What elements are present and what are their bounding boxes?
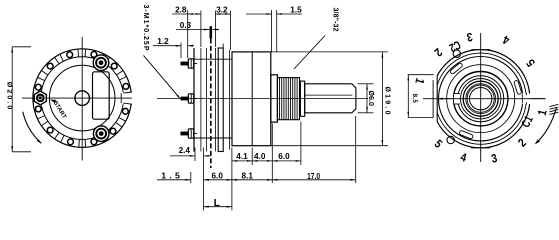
left view: ring gap at 3 o'clock	[122, 92, 134, 104]
svg-text:4.1: 4.1	[236, 151, 248, 161]
right view: index slots	[514, 80, 522, 95]
svg-text:1.5: 1.5	[161, 171, 180, 181]
middle view: step ring	[300, 81, 304, 116]
svg-text:4.0: 4.0	[254, 151, 266, 161]
middle view: dimension 0.3	[176, 29, 209, 31]
middle view: main body	[232, 52, 271, 146]
left view: START label with arrow	[50, 100, 56, 103]
middle view: rotor plate stub	[210, 26, 213, 38]
middle view: bushing base ring	[271, 75, 278, 122]
middle view: shaft	[305, 84, 356, 113]
middle view: leader line to threads	[294, 36, 325, 70]
middle view: wafer tie strips	[194, 58, 232, 60]
svg-text:1.5: 1.5	[290, 4, 302, 14]
middle view: wafer plates	[193, 48, 195, 152]
middle view: dimension diameter 6.0 shaft	[358, 83, 374, 85]
middle view: dimension 2.4	[170, 155, 195, 157]
svg-text:Ø19.0: Ø19.0	[384, 87, 391, 115]
right view: top flat	[471, 47, 491, 49]
middle view: dimension diameter 19.0 body	[232, 51, 388, 53]
middle view: 3-M1x0.25P label	[142, 5, 149, 51]
middle view: wafer center dashed line	[210, 38, 212, 168]
right view: mounting ear bottom-left	[447, 136, 454, 143]
left view: actuator rectangle	[93, 72, 110, 119]
svg-text:8.1: 8.1	[242, 171, 254, 181]
right view: rim gap at 3 o'clock	[522, 94, 531, 105]
left view: hexagon nut at left	[34, 91, 46, 105]
svg-text:L: L	[214, 198, 220, 209]
left view: diameter dimension 20.0	[11, 47, 13, 152]
right view: mounting ear top-left	[453, 50, 460, 57]
middle view: 3/8-32 thread label	[332, 8, 339, 32]
middle view: terminals	[181, 62, 188, 65]
middle view: dimension 3.2	[215, 13, 230, 15]
svg-text:3/8"-32: 3/8"-32	[332, 8, 339, 32]
left view: center lines	[81, 37, 83, 161]
middle view: threaded bushing	[277, 78, 299, 120]
middle view: dimension 2.8	[172, 13, 201, 15]
svg-text:8.5: 8.5	[411, 94, 418, 104]
right view: center lines	[480, 33, 482, 162]
right view: rotation direction arrow	[536, 108, 557, 144]
svg-text:2.4: 2.4	[179, 145, 191, 155]
middle view: leader line to terminal	[144, 55, 180, 98]
right view: keyway notch at left	[453, 94, 460, 104]
left view: rivet bottom-right	[93, 126, 109, 142]
svg-text:17.0: 17.0	[307, 171, 320, 181]
right view: centerlines redrawn over flats	[521, 98, 546, 100]
right view: arrow tail feathers	[550, 104, 559, 106]
svg-text:3-M1*0.25P: 3-M1*0.25P	[142, 5, 149, 51]
right view: body outer circles	[432, 49, 530, 147]
svg-text:6.0: 6.0	[212, 171, 224, 181]
right view: arrowhead on centerline	[438, 98, 443, 100]
middle view: dimension 1.2	[153, 45, 181, 47]
right view: bushing and shaft circles	[454, 72, 508, 126]
middle view: dimension 1.5 top	[246, 13, 272, 15]
right view: dimension 8.5	[408, 74, 434, 76]
svg-text:Ø20.0: Ø20.0	[5, 82, 12, 110]
right view: bottom flat	[471, 148, 491, 150]
middle view: horizontal centerline	[157, 98, 368, 100]
svg-text:0.3: 0.3	[180, 20, 192, 30]
left view: lug divider lines and terminal circles	[124, 94, 132, 97]
svg-text:2.8: 2.8	[175, 4, 187, 14]
svg-text:Ø6.0: Ø6.0	[367, 90, 374, 106]
left view: body circle	[49, 65, 115, 131]
right view: terminal position labels	[412, 76, 427, 86]
svg-text:3.2: 3.2	[216, 4, 228, 14]
right view: left flat	[429, 76, 438, 121]
svg-text:1.2: 1.2	[157, 36, 169, 46]
middle view: dimension row 1.5 / 6.0 / 8.1 / 17.0	[157, 179, 191, 181]
left view: rotation arc arrow	[23, 112, 42, 144]
middle view: dimension L	[231, 148, 233, 211]
middle view: dimension row 4.1 / 4.0 / 6.0	[232, 160, 301, 162]
left view: outer lug ring	[33, 49, 132, 148]
left view: center hole circle	[75, 91, 90, 106]
left view: rivet top-right	[93, 55, 109, 71]
svg-text:6.0: 6.0	[278, 151, 290, 161]
